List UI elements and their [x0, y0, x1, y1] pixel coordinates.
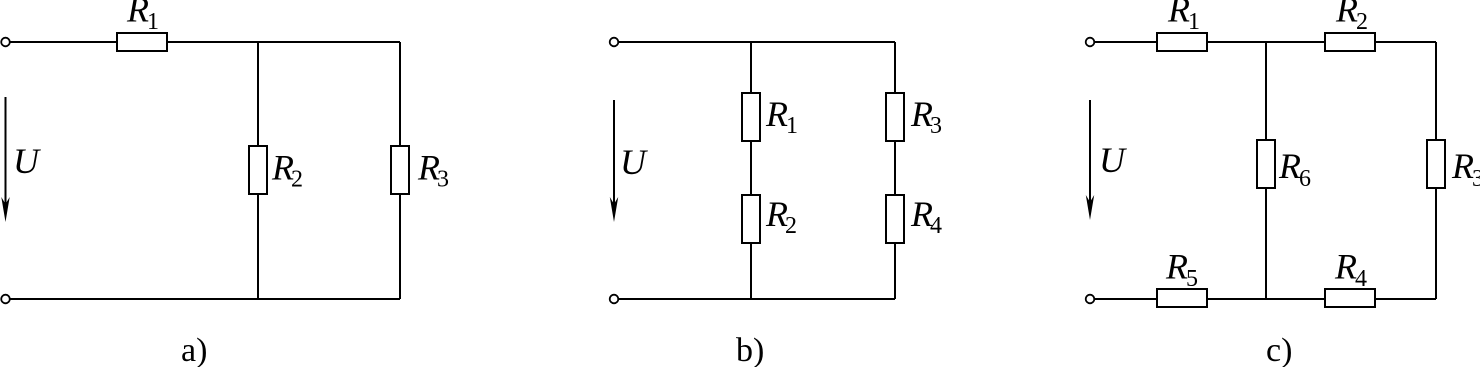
svg-text:3: 3	[1472, 166, 1480, 192]
svg-text:4: 4	[1355, 266, 1367, 292]
svg-text:4: 4	[930, 213, 942, 239]
svg-text:U: U	[1099, 140, 1127, 180]
svg-text:1: 1	[1188, 9, 1200, 35]
svg-text:U: U	[620, 142, 648, 182]
svg-text:3: 3	[930, 113, 942, 139]
svg-text:c): c)	[1266, 332, 1292, 367]
svg-text:R: R	[1334, 247, 1357, 287]
svg-text:R: R	[1335, 0, 1358, 30]
svg-text:6: 6	[1299, 166, 1311, 192]
svg-text:R: R	[1451, 146, 1474, 186]
svg-text:1: 1	[786, 113, 798, 139]
svg-text:R: R	[126, 0, 149, 30]
svg-text:R: R	[1167, 0, 1190, 30]
svg-text:2: 2	[785, 213, 797, 239]
svg-text:a): a)	[181, 332, 207, 367]
svg-text:1: 1	[147, 9, 159, 35]
svg-text:R: R	[765, 94, 788, 134]
svg-text:U: U	[13, 141, 41, 181]
svg-text:5: 5	[1186, 266, 1198, 292]
svg-text:b): b)	[736, 332, 764, 367]
svg-text:R: R	[1278, 146, 1301, 186]
svg-text:2: 2	[1356, 9, 1368, 35]
svg-text:3: 3	[437, 167, 449, 193]
svg-text:R: R	[1165, 247, 1188, 287]
svg-text:2: 2	[291, 167, 303, 193]
